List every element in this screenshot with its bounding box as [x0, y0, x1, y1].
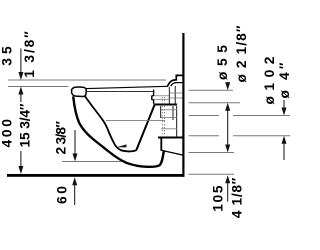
svg-text:4 1/8″: 4 1/8″	[229, 177, 244, 218]
outlet vertical 1	[160, 106, 162, 118]
svg-text:15 3/4″: 15 3/4″	[18, 103, 33, 147]
outlet pipe bottom slant	[161, 150, 183, 155]
o55 lower arrow, tail through to line E	[225, 103, 230, 111]
line A o55 top	[189, 89, 234, 91]
wall	[182, 33, 184, 177]
dim 400 lower line+arrow	[20, 151, 22, 168]
rear block right horizontal 2	[169, 97, 182, 99]
rear block inner horizontal 1	[154, 95, 169, 97]
rear block left edge	[152, 90, 154, 104]
dim 105 arrow up below floor ext	[225, 175, 230, 183]
outlet vertical 2	[176, 106, 178, 137]
svg-text:ø 4″: ø 4″	[277, 62, 292, 98]
rear block inner horizontal 2	[154, 98, 169, 100]
seat level line	[8, 79, 166, 81]
dim 35 upper line+arrow	[20, 49, 22, 74]
spud outer	[168, 75, 184, 86]
60mm level line	[62, 161, 121, 163]
line C o102 top	[189, 115, 291, 117]
outlet hidden dash 2	[163, 97, 165, 136]
line B o55 bottom	[189, 102, 241, 104]
toilet: ceramic top surface	[86, 86, 168, 88]
line E outlet bottom	[189, 152, 235, 154]
toilet: outer silhouette	[73, 96, 164, 166]
outlet hidden dash 1	[161, 97, 163, 136]
dim 35/400 middle arrow up	[18, 87, 23, 95]
rear block right horizontal 1	[169, 92, 182, 94]
outlet horizontal 3	[161, 128, 177, 130]
toilet: rim inner edge	[87, 91, 154, 93]
dim o102 column	[282, 100, 287, 160]
label 15 3/4" bg	[19, 102, 30, 149]
outlet horizontal 2	[161, 117, 177, 119]
outlet pipe top	[158, 137, 184, 139]
trap triangle mark	[116, 144, 126, 147]
dim 35/400 column	[18, 49, 23, 175]
svg-text:ø55: ø55	[215, 45, 230, 80]
spud inner	[171, 83, 184, 87]
svg-text:ø 2 1/8″: ø 2 1/8″	[234, 25, 249, 82]
o102 upper arrow	[283, 100, 285, 109]
ceramic top extension line	[8, 86, 69, 88]
o102 lower arrow	[282, 136, 287, 144]
rear block inner vertical 1	[168, 87, 170, 104]
svg-text:2 3/8″: 2 3/8″	[53, 121, 68, 155]
dim 2 3/8 line+arrow down	[74, 130, 76, 155]
outlet vertical 1b	[172, 106, 174, 120]
floor	[7, 174, 185, 177]
toilet: rear interior wall diagonal	[137, 105, 155, 150]
rear block inner vertical 2	[174, 86, 176, 104]
outlet pipe front	[160, 138, 162, 151]
toilet: rim bead front	[72, 87, 87, 97]
dim 60 arrow up below floor	[72, 177, 77, 185]
rear block bottom	[154, 104, 177, 106]
line D o102 bottom	[189, 135, 291, 137]
outlet horizontal 1	[161, 109, 177, 111]
dim o55/105 column	[225, 82, 230, 202]
svg-text:400: 400	[0, 119, 15, 148]
dim 60/2-38 column	[72, 130, 77, 205]
toilet: inner bowl wall	[85, 97, 137, 152]
svg-text:105: 105	[211, 185, 226, 212]
line F floor extension	[189, 173, 235, 175]
o55 upper arrow	[227, 82, 229, 84]
water line	[106, 120, 165, 122]
